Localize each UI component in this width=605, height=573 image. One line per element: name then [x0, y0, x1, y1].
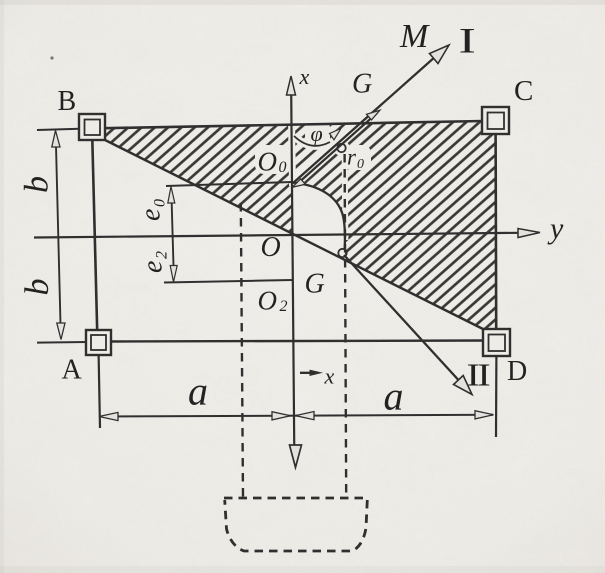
footing dashed outline [224, 498, 368, 551]
halo under phi arc [294, 136, 330, 146]
dashed vertical left [241, 203, 243, 497]
pile D square [483, 329, 510, 356]
edge shading [0, 0, 605, 5]
line I [293, 49, 445, 184]
label e0 rotated [136, 199, 169, 221]
phi angle arc [294, 136, 330, 146]
wire right edge extension below D [495, 355, 498, 437]
wire right edge C-D [494, 133, 497, 330]
halo under r0 band [292, 47, 446, 186]
x axis [291, 92, 294, 452]
wire extension below A [99, 354, 100, 428]
wire bottom edge left extension [37, 341, 87, 344]
pile C square [482, 107, 509, 134]
point G upper circle [337, 144, 345, 152]
e2 level line [164, 280, 292, 283]
line II [344, 255, 463, 385]
e dimension arrow [171, 190, 174, 276]
scan speck [50, 56, 53, 59]
a dimension line [99, 415, 493, 417]
pile A square [86, 330, 111, 355]
wire top edge B-C [104, 121, 483, 128]
label e2 rotated [138, 251, 171, 273]
wire left edge B-A [92, 139, 97, 331]
y axis [34, 233, 521, 238]
wire top edge left extension [37, 129, 80, 130]
point G lower circle [338, 249, 346, 257]
pile B square [79, 114, 105, 140]
label halos [255, 145, 290, 174]
core boundary curve [293, 183, 345, 249]
dashed vertical right [345, 154, 347, 497]
e0 level line [166, 182, 292, 186]
r0 dimension line along I [295, 113, 377, 186]
small x direction arrow [300, 372, 317, 374]
halo under dashed v2 [342, 152, 349, 240]
halo under x axis in hatch [292, 118, 293, 186]
hatched compressed zone (triangle B-C-D minus core blob) [105, 121, 496, 330]
wire bottom edge A-D [110, 341, 484, 342]
diagonal neutral line B-D [105, 140, 483, 329]
b dimension arrow [56, 134, 61, 336]
